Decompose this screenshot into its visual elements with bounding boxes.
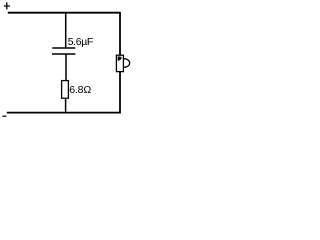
svg-text:6.8Ω: 6.8Ω [69,84,91,96]
earphone LS1 body [116,55,123,71]
wire bottom rail [7,112,120,114]
earphone LS1 polarity dot [118,57,122,61]
resistor R1 body [62,81,69,99]
wire right rail lower [119,72,121,114]
wire resistor to bottom rail [65,98,67,112]
capacitor C1 top plate [52,47,75,49]
capacitor C1 bottom plate [52,53,75,55]
wire capacitor branch upper [65,13,67,48]
node + (positive terminal label) [4,2,10,9]
wire top rail [8,12,120,14]
wire right rail upper [119,12,121,55]
node - (negative terminal label) [3,115,7,117]
wire capacitor to resistor [65,54,67,81]
earphone LS1 ear hook arc [124,59,130,68]
svg-text:5.6µF: 5.6µF [68,36,93,48]
